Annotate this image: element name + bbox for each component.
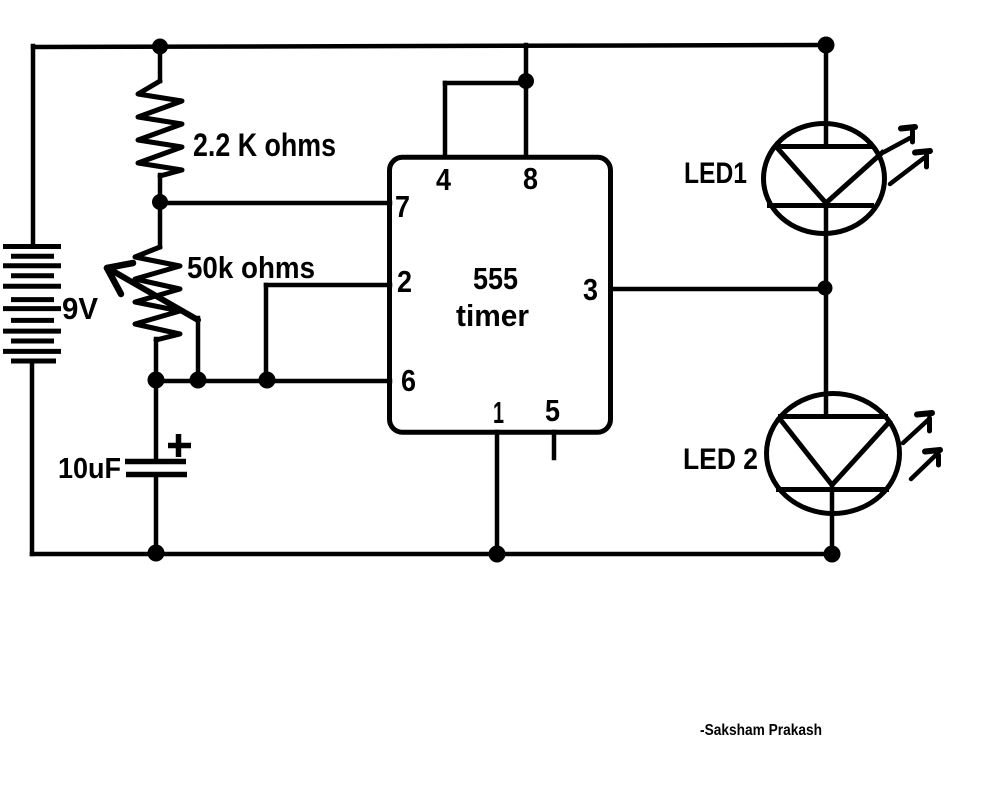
svg-text:7: 7 — [395, 189, 410, 224]
svg-text:5: 5 — [545, 393, 560, 428]
svg-text:10uF: 10uF — [58, 453, 121, 485]
svg-text:LED1: LED1 — [684, 157, 747, 190]
svg-text:6: 6 — [401, 363, 416, 398]
svg-text:1: 1 — [493, 395, 504, 430]
svg-text:555: 555 — [473, 261, 518, 296]
svg-text:LED 2: LED 2 — [683, 443, 758, 476]
svg-text:50k ohms: 50k ohms — [187, 250, 315, 285]
svg-text:2: 2 — [397, 264, 412, 299]
svg-text:4: 4 — [436, 162, 452, 197]
svg-text:timer: timer — [456, 298, 529, 333]
svg-text:2.2 K ohms: 2.2 K ohms — [193, 127, 336, 163]
svg-text:9V: 9V — [62, 291, 98, 326]
svg-text:3: 3 — [583, 272, 598, 307]
svg-text:-Saksham Prakash: -Saksham Prakash — [700, 722, 822, 739]
svg-text:8: 8 — [523, 161, 538, 196]
